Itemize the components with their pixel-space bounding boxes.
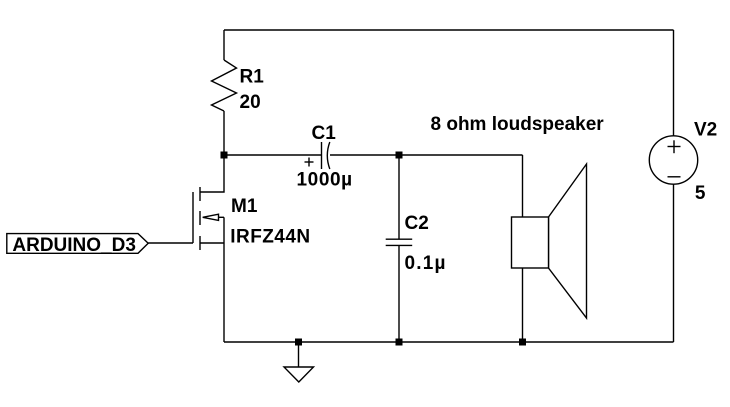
transistor M1 [193,187,224,342]
node junction R1/drain [221,152,228,159]
svg-text:M1: M1 [231,196,258,217]
wire right bottom (V2 to bottom rail) [673,184,675,342]
svg-text:R1: R1 [240,66,265,87]
resistor R1 [212,60,237,111]
svg-text:0.1µ: 0.1µ [405,253,447,274]
svg-text:ARDUINO_D3: ARDUINO_D3 [12,235,136,256]
wire node to M1 drain [200,155,224,192]
wire R1 to node [223,111,225,155]
svg-text:8 ohm loudspeaker: 8 ohm loudspeaker [431,114,605,135]
flag ARDUINO_D3 [7,234,148,254]
svg-text:C1: C1 [312,123,337,144]
node junction C2 top [396,152,403,159]
wire C1 to speaker [330,154,523,156]
svg-text:20: 20 [240,92,261,113]
wire C2 top [398,155,400,239]
wire right top (V2 to top rail) [673,30,675,136]
loudspeaker [512,164,587,318]
svg-text:IRFZ44N: IRFZ44N [230,226,310,247]
svg-text:C2: C2 [405,213,429,234]
wire top rail [224,29,674,31]
capacitor C1 [305,142,330,169]
node junction C2 bottom [396,339,403,346]
voltage source V2 [649,136,697,184]
svg-text:V2: V2 [694,120,717,141]
node junction ground [295,339,302,346]
wire gate lead [148,242,193,244]
wire node to C1 [224,154,322,156]
capacitor C2 [386,239,413,245]
svg-text:1000µ: 1000µ [297,170,353,191]
ground [284,342,314,382]
wire C2 bottom [398,245,400,342]
wire bottom rail [224,341,674,343]
wire top left (rail to R1) [223,30,225,60]
svg-text:5: 5 [695,183,706,204]
wire speaker vertical [522,155,524,342]
node junction speaker bottom [519,339,526,346]
